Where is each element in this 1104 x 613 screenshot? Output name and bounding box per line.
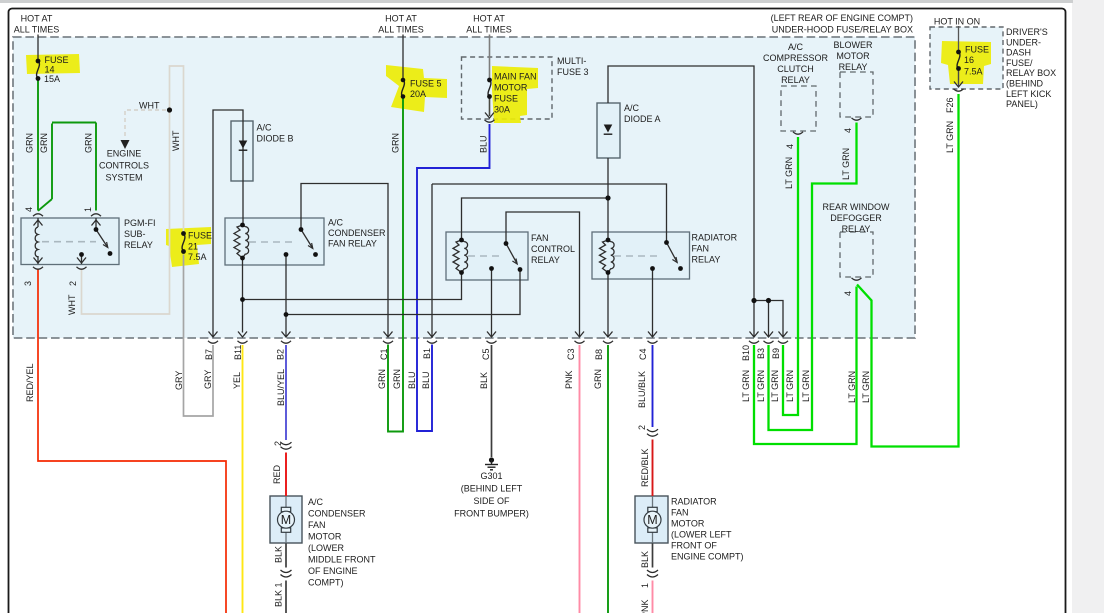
- svg-text:2: 2: [68, 281, 78, 286]
- svg-text:GRN: GRN: [39, 133, 49, 153]
- svg-text:30A: 30A: [494, 105, 510, 115]
- svg-text:FRONT OF: FRONT OF: [671, 541, 717, 551]
- svg-text:CONDENSER: CONDENSER: [328, 228, 386, 238]
- svg-text:4: 4: [785, 144, 795, 149]
- svg-text:DEFOGGER: DEFOGGER: [830, 213, 882, 223]
- svg-text:DIODE A: DIODE A: [624, 114, 661, 124]
- svg-text:MOTOR: MOTOR: [671, 519, 705, 529]
- svg-text:LT GRN: LT GRN: [784, 157, 794, 189]
- svg-text:COMPT): COMPT): [308, 578, 344, 588]
- svg-text:FUSE: FUSE: [45, 55, 69, 65]
- svg-text:COMPRESSOR: COMPRESSOR: [763, 53, 829, 63]
- svg-text:(BEHIND: (BEHIND: [1006, 79, 1044, 89]
- svg-text:LT GRN: LT GRN: [770, 370, 780, 402]
- svg-text:7.5A: 7.5A: [964, 67, 983, 77]
- svg-text:C3: C3: [566, 348, 576, 360]
- svg-text:LT GRN: LT GRN: [861, 371, 871, 403]
- svg-text:RADIATOR: RADIATOR: [671, 497, 717, 507]
- svg-text:SYSTEM: SYSTEM: [105, 173, 142, 183]
- svg-text:1: 1: [640, 583, 650, 588]
- svg-text:A/C: A/C: [788, 42, 804, 52]
- svg-text:GRN: GRN: [25, 133, 35, 153]
- svg-text:HOT AT: HOT AT: [385, 14, 417, 24]
- svg-text:CONDENSER: CONDENSER: [308, 509, 366, 519]
- svg-text:BLOWER: BLOWER: [833, 40, 873, 50]
- svg-text:MIDDLE FRONT: MIDDLE FRONT: [308, 555, 376, 565]
- svg-text:LT GRN: LT GRN: [801, 370, 811, 402]
- svg-text:BLK: BLK: [479, 372, 489, 389]
- svg-text:LT GRN: LT GRN: [841, 148, 851, 180]
- svg-text:B10: B10: [741, 345, 751, 361]
- svg-text:FUSE: FUSE: [965, 45, 989, 55]
- svg-text:21: 21: [188, 242, 198, 252]
- svg-text:PNK: PNK: [640, 599, 650, 613]
- svg-text:ALL TIMES: ALL TIMES: [378, 25, 424, 35]
- svg-text:A/C: A/C: [328, 218, 344, 228]
- svg-text:PNK: PNK: [564, 370, 574, 389]
- svg-text:4: 4: [843, 128, 853, 133]
- svg-text:BLU/BLK: BLU/BLK: [637, 371, 647, 408]
- svg-text:B3: B3: [756, 348, 766, 359]
- svg-text:RELAY: RELAY: [124, 240, 153, 250]
- svg-text:FAN: FAN: [531, 233, 549, 243]
- svg-text:WHT: WHT: [171, 130, 181, 151]
- svg-text:HOT AT: HOT AT: [473, 14, 505, 24]
- svg-text:BLU/YEL: BLU/YEL: [276, 369, 286, 406]
- svg-text:SUB-: SUB-: [124, 229, 146, 239]
- svg-text:MOTOR: MOTOR: [494, 83, 528, 93]
- svg-text:15A: 15A: [44, 74, 60, 84]
- svg-text:FRONT BUMPER): FRONT BUMPER): [454, 509, 529, 519]
- svg-text:FUSE 5: FUSE 5: [410, 79, 442, 89]
- svg-text:FUSE 3: FUSE 3: [557, 67, 589, 77]
- svg-text:GRN: GRN: [377, 369, 387, 389]
- svg-text:UNDER-: UNDER-: [1006, 37, 1041, 47]
- svg-text:A/C: A/C: [308, 497, 324, 507]
- svg-text:FAN: FAN: [692, 244, 710, 254]
- svg-text:CLUTCH: CLUTCH: [777, 64, 814, 74]
- svg-text:LT GRN: LT GRN: [847, 371, 857, 403]
- svg-text:WHT: WHT: [139, 101, 160, 111]
- svg-text:GRN: GRN: [391, 133, 401, 153]
- svg-text:B1: B1: [422, 348, 432, 359]
- svg-text:RELAY: RELAY: [839, 62, 868, 72]
- svg-text:3: 3: [23, 281, 33, 286]
- svg-text:RELAY: RELAY: [531, 255, 560, 265]
- svg-text:UNDER-HOOD FUSE/RELAY BOX: UNDER-HOOD FUSE/RELAY BOX: [772, 25, 913, 35]
- svg-text:M: M: [281, 513, 291, 527]
- svg-text:GRY: GRY: [203, 370, 213, 389]
- svg-text:4: 4: [24, 207, 34, 212]
- svg-text:BLK: BLK: [640, 551, 650, 568]
- svg-text:LT GRN: LT GRN: [756, 370, 766, 402]
- svg-text:LEFT KICK: LEFT KICK: [1006, 89, 1051, 99]
- svg-text:B11: B11: [233, 345, 243, 360]
- svg-text:B8: B8: [594, 349, 604, 360]
- svg-text:20A: 20A: [410, 89, 426, 99]
- svg-text:MAIN FAN: MAIN FAN: [494, 72, 537, 82]
- svg-text:FUSE: FUSE: [494, 94, 518, 104]
- svg-text:A/C: A/C: [624, 103, 640, 113]
- svg-text:MOTOR: MOTOR: [836, 51, 870, 61]
- svg-text:GRY: GRY: [174, 371, 184, 390]
- svg-text:BLU: BLU: [407, 371, 417, 389]
- svg-text:FUSE/: FUSE/: [1006, 58, 1033, 68]
- svg-text:GRN: GRN: [84, 133, 94, 153]
- svg-text:14: 14: [45, 65, 55, 75]
- svg-text:CONTROL: CONTROL: [531, 244, 575, 254]
- svg-text:(BEHIND LEFT: (BEHIND LEFT: [461, 484, 523, 494]
- svg-text:G301: G301: [480, 471, 502, 481]
- svg-text:2: 2: [273, 441, 283, 446]
- svg-text:B2: B2: [276, 349, 286, 360]
- svg-text:PANEL): PANEL): [1006, 99, 1038, 109]
- svg-text:FAN: FAN: [308, 520, 326, 530]
- svg-text:(LOWER LEFT: (LOWER LEFT: [671, 530, 732, 540]
- svg-text:4: 4: [843, 291, 853, 296]
- svg-text:(LOWER: (LOWER: [308, 543, 345, 553]
- svg-text:RELAY: RELAY: [781, 75, 810, 85]
- svg-text:C1: C1: [379, 348, 389, 360]
- svg-text:DIODE B: DIODE B: [257, 134, 294, 144]
- svg-text:REAR WINDOW: REAR WINDOW: [823, 202, 891, 212]
- svg-text:PGM-FI: PGM-FI: [124, 218, 156, 228]
- svg-text:C4: C4: [638, 348, 648, 360]
- svg-text:RELAY: RELAY: [692, 255, 721, 265]
- svg-text:FAN: FAN: [671, 508, 689, 518]
- svg-text:HOT IN ON: HOT IN ON: [934, 17, 980, 27]
- svg-text:LT GRN: LT GRN: [741, 370, 751, 402]
- svg-text:ALL TIMES: ALL TIMES: [14, 25, 60, 35]
- svg-text:M: M: [647, 513, 657, 527]
- svg-text:SIDE OF: SIDE OF: [473, 496, 510, 506]
- svg-text:A/C: A/C: [257, 123, 273, 133]
- svg-text:C5: C5: [481, 348, 491, 360]
- svg-text:CONTROLS: CONTROLS: [99, 161, 149, 171]
- svg-text:1: 1: [274, 582, 284, 587]
- svg-text:ENGINE COMPT): ENGINE COMPT): [671, 552, 744, 562]
- svg-text:BLU: BLU: [421, 371, 431, 389]
- svg-text:WHT: WHT: [67, 294, 77, 315]
- svg-text:(LEFT REAR OF ENGINE COMPT): (LEFT REAR OF ENGINE COMPT): [771, 13, 913, 23]
- svg-text:1: 1: [83, 207, 93, 212]
- svg-text:LT GRN: LT GRN: [945, 121, 955, 153]
- svg-text:DRIVER'S: DRIVER'S: [1006, 27, 1048, 37]
- svg-text:RED: RED: [272, 464, 282, 484]
- svg-text:BLK: BLK: [274, 546, 284, 563]
- svg-text:BLU: BLU: [479, 135, 489, 153]
- svg-text:7.5A: 7.5A: [188, 252, 207, 262]
- svg-text:2: 2: [637, 425, 647, 430]
- svg-text:LT GRN: LT GRN: [785, 370, 795, 402]
- svg-text:RED/YEL: RED/YEL: [25, 363, 35, 402]
- svg-text:FAN RELAY: FAN RELAY: [328, 239, 377, 249]
- svg-text:HOT AT: HOT AT: [21, 14, 53, 24]
- svg-text:YEL: YEL: [232, 372, 242, 389]
- svg-text:FUSE: FUSE: [188, 231, 212, 241]
- svg-text:MULTI-: MULTI-: [557, 56, 586, 66]
- svg-text:ENGINE: ENGINE: [107, 149, 142, 159]
- svg-text:16: 16: [964, 55, 974, 65]
- svg-text:RELAY: RELAY: [842, 224, 871, 234]
- svg-text:BLK: BLK: [274, 590, 284, 607]
- svg-text:RED/BLK: RED/BLK: [640, 448, 650, 487]
- svg-text:B7: B7: [204, 349, 214, 360]
- svg-text:GRN: GRN: [593, 369, 603, 389]
- svg-text:F26: F26: [945, 97, 955, 113]
- svg-text:ALL TIMES: ALL TIMES: [466, 25, 512, 35]
- svg-text:OF ENGINE: OF ENGINE: [308, 566, 358, 576]
- svg-text:DASH: DASH: [1006, 48, 1031, 58]
- svg-text:MOTOR: MOTOR: [308, 532, 342, 542]
- svg-text:RELAY BOX: RELAY BOX: [1006, 68, 1056, 78]
- svg-text:GRN: GRN: [392, 369, 402, 389]
- svg-text:RADIATOR: RADIATOR: [692, 233, 738, 243]
- svg-text:B9: B9: [771, 348, 781, 359]
